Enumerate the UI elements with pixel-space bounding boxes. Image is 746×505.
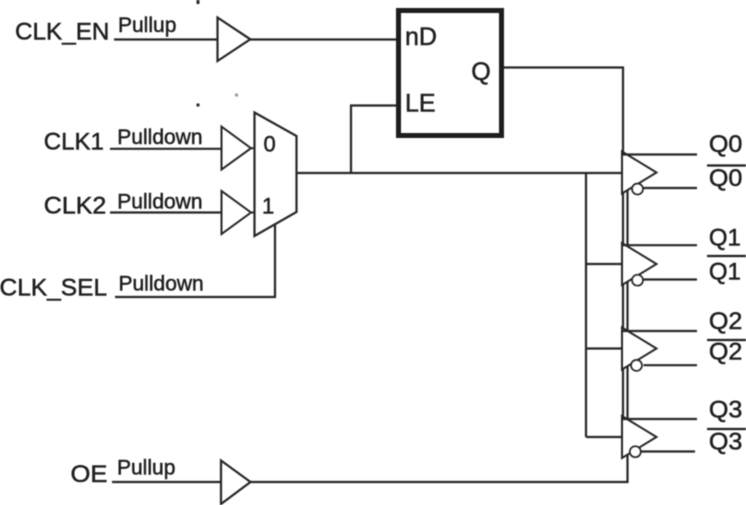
svg-text:0: 0 [264,131,276,156]
wire OE net vertical up to output buffers [250,180,628,482]
svg-text:Q3: Q3 [709,428,743,455]
wire CLK_EN to input buffer [114,38,218,40]
svg-text:Q2: Q2 [709,308,743,335]
wire latch Q output to vertical enable line [503,66,624,68]
buffer U3 (CLK1 input buffer) [222,127,252,170]
svg-text:Pulldown: Pulldown [119,273,204,296]
wire tap to buffer Q1 [586,263,622,265]
wire mux output clock line to output buffers [297,172,623,174]
wire tap to buffer Q2 [586,347,622,349]
wire Q0 output [623,153,697,155]
inversion bubble U9 [630,446,641,457]
wire OE to buffer [112,481,221,483]
inversion bubble U8 [631,360,642,371]
wire tap to buffer Q3 [586,436,622,438]
wire CLK_SEL to mux select [115,224,275,297]
buffer U1 (CLK_EN input buffer) [218,18,251,62]
latch U2 (nD/LE latch) [399,11,502,136]
svg-text:Pullup: Pullup [117,457,175,480]
overline for nQ3 [707,428,746,430]
wire LE input from clock line [351,106,396,175]
svg-text:1: 1 [262,194,274,219]
output buffer U9 (Q3 driver) [622,416,657,458]
wire buffer U1 output to latch nD [250,38,396,40]
output buffer U6 (Q0 driver) [622,152,657,194]
inversion bubble U6 [632,184,643,195]
svg-text:CLK1: CLK1 [44,129,104,156]
svg-text:Q2: Q2 [709,338,743,365]
wire clock bus vertical [585,172,587,437]
wire Q1 output [623,244,697,246]
wire Q2 output [623,330,697,332]
svg-text:Q1: Q1 [709,259,741,286]
svg-text:Q0: Q0 [709,131,743,158]
svg-text:Q3: Q3 [709,396,743,423]
svg-text:Q: Q [471,58,491,86]
svg-text:OE: OE [71,461,108,488]
svg-text:Q0: Q0 [709,165,743,192]
overline for nQ1 [707,255,746,257]
wire Q3 output [623,418,697,420]
wire vertical enable net from latch Q down to output buffers [622,67,624,441]
wire buffer U4 to mux input 1 [250,212,255,214]
overline for nQ0 [707,164,746,166]
wire nQ2 output [644,364,698,366]
wire CLK1 to input buffer [110,148,221,150]
wire buffer U3 to mux input 0 [250,147,255,149]
svg-text:CLK_EN: CLK_EN [15,18,109,45]
svg-text:Pullup: Pullup [118,14,176,37]
svg-text:Q1: Q1 [709,225,741,252]
mux U5 (clock select mux) [255,113,297,237]
svg-text:LE: LE [405,90,436,118]
wire nQ1 output [644,278,698,280]
svg-text:CLK2: CLK2 [44,193,107,220]
output buffer U8 (Q2 driver) [622,328,657,370]
output buffer U7 (Q1 driver) [622,243,657,285]
svg-text:CLK_SEL: CLK_SEL [0,275,107,302]
wire CLK2 to input buffer [110,211,221,213]
wire nQ3 output [642,450,696,452]
buffer U10 (OE buffer) [221,461,251,505]
wire nQ0 output [644,187,698,189]
inversion bubble U7 [632,275,643,286]
svg-text:Pulldown: Pulldown [117,190,202,213]
buffer U4 (CLK2 input buffer) [222,191,252,234]
svg-text:nD: nD [405,23,437,51]
svg-text:Pulldown: Pulldown [117,126,202,149]
overline for nQ2 [707,339,746,341]
